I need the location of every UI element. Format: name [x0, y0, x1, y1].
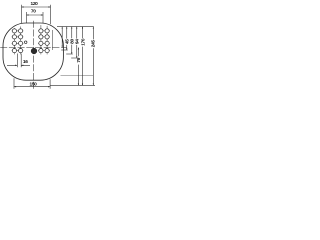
hole C3 — [39, 41, 43, 45]
hole B2 — [19, 35, 23, 39]
dim 150: extension line right — [49, 79, 51, 89]
hole B3 — [39, 35, 43, 39]
dim 16: extension line left — [16, 54, 18, 68]
arrow 76 top — [78, 48, 79, 50]
svg-text:76: 76 — [76, 57, 82, 62]
hole row tick y=43.4 left — [12, 42, 24, 44]
dim 94 bottom tick — [71, 57, 78, 59]
dim 120: dimension line — [22, 6, 51, 8]
dim 76 vertical — [77, 48, 79, 86]
dim 80 vertical — [71, 27, 73, 54]
hole C4 — [45, 41, 49, 45]
hole A2 — [19, 29, 23, 33]
hole row tick y=50.0 right — [38, 50, 50, 52]
hole D4 — [45, 49, 49, 53]
svg-text:94: 94 — [75, 39, 81, 44]
arrow 76 bottom — [78, 84, 79, 86]
arrow 70 left — [27, 14, 29, 15]
dim 16: extension line right — [20, 54, 22, 68]
arrow 170 bottom — [82, 84, 83, 86]
dim 120: extension line right — [50, 5, 52, 24]
arrow 245 bottom — [93, 84, 94, 86]
arrow 94 bottom — [76, 56, 77, 58]
hole column centerline x=20.0 — [20, 27, 22, 55]
svg-text:16: 16 — [23, 59, 28, 65]
arrow 150 left — [14, 86, 16, 87]
hole column centerline x=46.8 — [46, 26, 48, 55]
dim 45 vertical — [66, 27, 68, 50]
hole row tick y=36.8 left — [12, 36, 24, 38]
dim 16: dimension line — [7, 64, 30, 66]
center hub hole (filled) — [31, 48, 37, 54]
arrow 150 right — [48, 86, 50, 87]
svg-text:150: 150 — [30, 81, 38, 87]
dim 70: dimension line — [27, 14, 44, 16]
svg-text:170: 170 — [80, 38, 86, 46]
hole D3 — [39, 49, 43, 53]
hole row tick y=36.8 right — [38, 36, 50, 38]
arrow 80 top — [71, 27, 72, 29]
dim 94 vertical — [76, 27, 78, 58]
hole B1 — [12, 35, 16, 39]
dim 70: extension line right — [42, 12, 44, 23]
arrow 120 right — [48, 6, 50, 7]
dim 150: dimension line — [14, 86, 50, 88]
arrow 170 top — [82, 27, 83, 29]
dim 120: extension line left — [21, 5, 23, 23]
dim 150: extension line left — [13, 78, 15, 89]
arrow 245 top — [93, 27, 94, 29]
arrow 45 bottom — [66, 48, 67, 50]
bolt holes: grid cols 13.8,20.0,40.6,46.8 rows 30.6,36.8,43.4,50.0 — [12, 29, 49, 53]
arrow 45 top — [66, 27, 67, 29]
svg-text:245: 245 — [91, 40, 96, 48]
hole D1 — [12, 49, 16, 53]
arrow 16 left (outside) — [15, 65, 17, 66]
dim 70: extension line left — [26, 12, 28, 23]
background — [0, 0, 96, 96]
hole column centerline x=40.6 — [40, 25, 42, 54]
hole row tick y=30.6 left — [12, 30, 24, 32]
flange outline rounded-square plate — [3, 23, 63, 80]
hole C2 — [19, 41, 23, 45]
arrow 16 right (outside) — [21, 65, 23, 66]
hole A3 — [39, 29, 43, 33]
hole row tick y=43.4 right — [38, 42, 50, 44]
arrow 80 bottom — [71, 52, 72, 54]
hole row tick y=50.0 left — [12, 50, 24, 52]
right top extension line — [57, 26, 94, 28]
right mid extension line y=75.7 — [61, 75, 94, 77]
svg-text:70: 70 — [31, 9, 36, 15]
hidden feature line x=52.3 — [51, 30, 53, 50]
horizontal centerline — [0, 47, 67, 49]
hole column centerline x=13.8 — [13, 28, 15, 54]
right bottom extension line — [50, 84, 95, 86]
small hole E1 — [24, 41, 27, 44]
hole A4 — [45, 29, 49, 33]
hole D2 — [19, 49, 23, 53]
dim 245 vertical — [92, 27, 94, 86]
dim 170 vertical — [82, 27, 84, 86]
right dim no-text vertical x=62.2 — [61, 27, 63, 48]
hole B4 — [45, 35, 49, 39]
arrow x62.2 bottom — [62, 46, 63, 48]
arrow x62.2 top — [62, 27, 63, 29]
hole A1 — [12, 29, 16, 33]
arrow 120 left — [22, 6, 24, 7]
hole C1 — [12, 41, 16, 45]
dim 45 bottom tick — [61, 49, 68, 51]
arrow 94 top — [76, 27, 77, 29]
arrow 70 right — [41, 14, 43, 15]
hole row tick y=30.6 right — [38, 30, 50, 32]
vertical centerline — [33, 21, 35, 89]
svg-text:120: 120 — [31, 1, 39, 7]
dim 80 bottom tick — [66, 53, 73, 55]
